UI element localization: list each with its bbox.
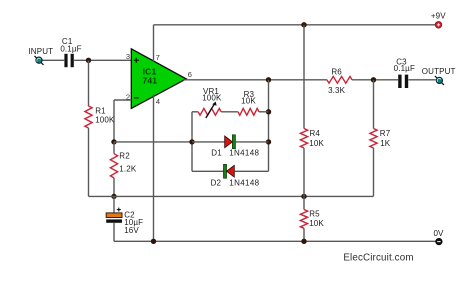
svg-text:0.1µF: 0.1µF [394,64,415,73]
wire pin7 to +9V rail [153,25,155,62]
svg-text:16V: 16V [124,226,139,235]
svg-text:0V: 0V [433,229,444,238]
svg-text:10K: 10K [309,219,324,228]
wire pin4 to 0V rail [153,95,155,242]
svg-text:INPUT: INPUT [28,47,53,56]
svg-text:10K: 10K [309,139,324,148]
wire input to pin3 [42,59,64,61]
wire pin2 to feedback [114,141,192,143]
resistor R3 [221,111,238,113]
svg-text:OUTPUT: OUTPUT [422,67,456,76]
output terminal [435,76,444,85]
svg-text:1K: 1K [380,139,391,148]
svg-text:R5: R5 [309,210,320,219]
svg-text:ElecCircuit.com: ElecCircuit.com [343,253,413,264]
svg-text:R1: R1 [95,107,106,116]
capacitor C2 [113,196,115,213]
svg-text:D1: D1 [211,149,222,158]
node R5-rail junction [301,239,306,244]
svg-text:1.2K: 1.2K [119,164,137,173]
svg-text:10K: 10K [241,96,256,105]
diode D1 [192,141,225,143]
node bias-R4R5 junction [301,194,306,199]
+9V terminal [435,22,442,29]
resistor R4 [303,25,305,129]
resistor R2 [113,142,115,154]
node pin4-rail junction [151,239,156,244]
wire output pin6 [183,79,327,81]
node feedback right-D1 junction [266,139,271,144]
resistor R1 [88,60,90,106]
wire bias rail [89,195,374,197]
resistor R7 [373,80,375,129]
op-amp U1 IC1 741 [131,49,186,109]
wire feedback right vertical [268,80,270,172]
svg-text:1N4148: 1N4148 [229,178,259,187]
svg-text:R4: R4 [310,129,321,138]
svg-text:100K: 100K [202,94,222,103]
node feedback left-D1 junction [189,139,194,144]
node R6-C3-R7 junction [371,77,376,82]
node top rail junction [301,22,306,27]
0V terminal [436,238,443,245]
svg-text:3: 3 [126,52,130,61]
node output-feedback junction [266,77,271,82]
svg-text:0.1µF: 0.1µF [60,44,81,53]
diode D2 [192,170,224,172]
potentiometer VR1 [192,111,198,113]
resistor R5 [303,196,305,209]
node pin2 junction [111,139,116,144]
wire feedback left vertical [191,112,193,172]
wire pin2 [114,99,132,101]
svg-text:6: 6 [188,70,192,79]
node input junction [86,58,91,63]
svg-text:7: 7 [156,53,160,62]
svg-text:D2: D2 [211,178,222,187]
input terminal [35,56,44,65]
svg-text:741: 741 [142,76,157,86]
svg-text:4: 4 [156,97,160,106]
wire 0V rail [114,240,436,242]
svg-text:R6: R6 [331,67,342,76]
node feedback right-top junction [266,109,271,114]
svg-text:100K: 100K [95,116,115,125]
svg-text:R7: R7 [380,129,391,138]
capacitor C1 [64,54,67,67]
svg-text:3.3K: 3.3K [328,86,346,95]
resistor R6 [327,76,352,83]
svg-text:+9V: +9V [431,11,446,20]
svg-text:R2: R2 [119,152,130,161]
capacitor C3 [398,75,401,88]
node R2 bottom junction [111,194,116,199]
svg-text:1N4148: 1N4148 [229,148,259,157]
